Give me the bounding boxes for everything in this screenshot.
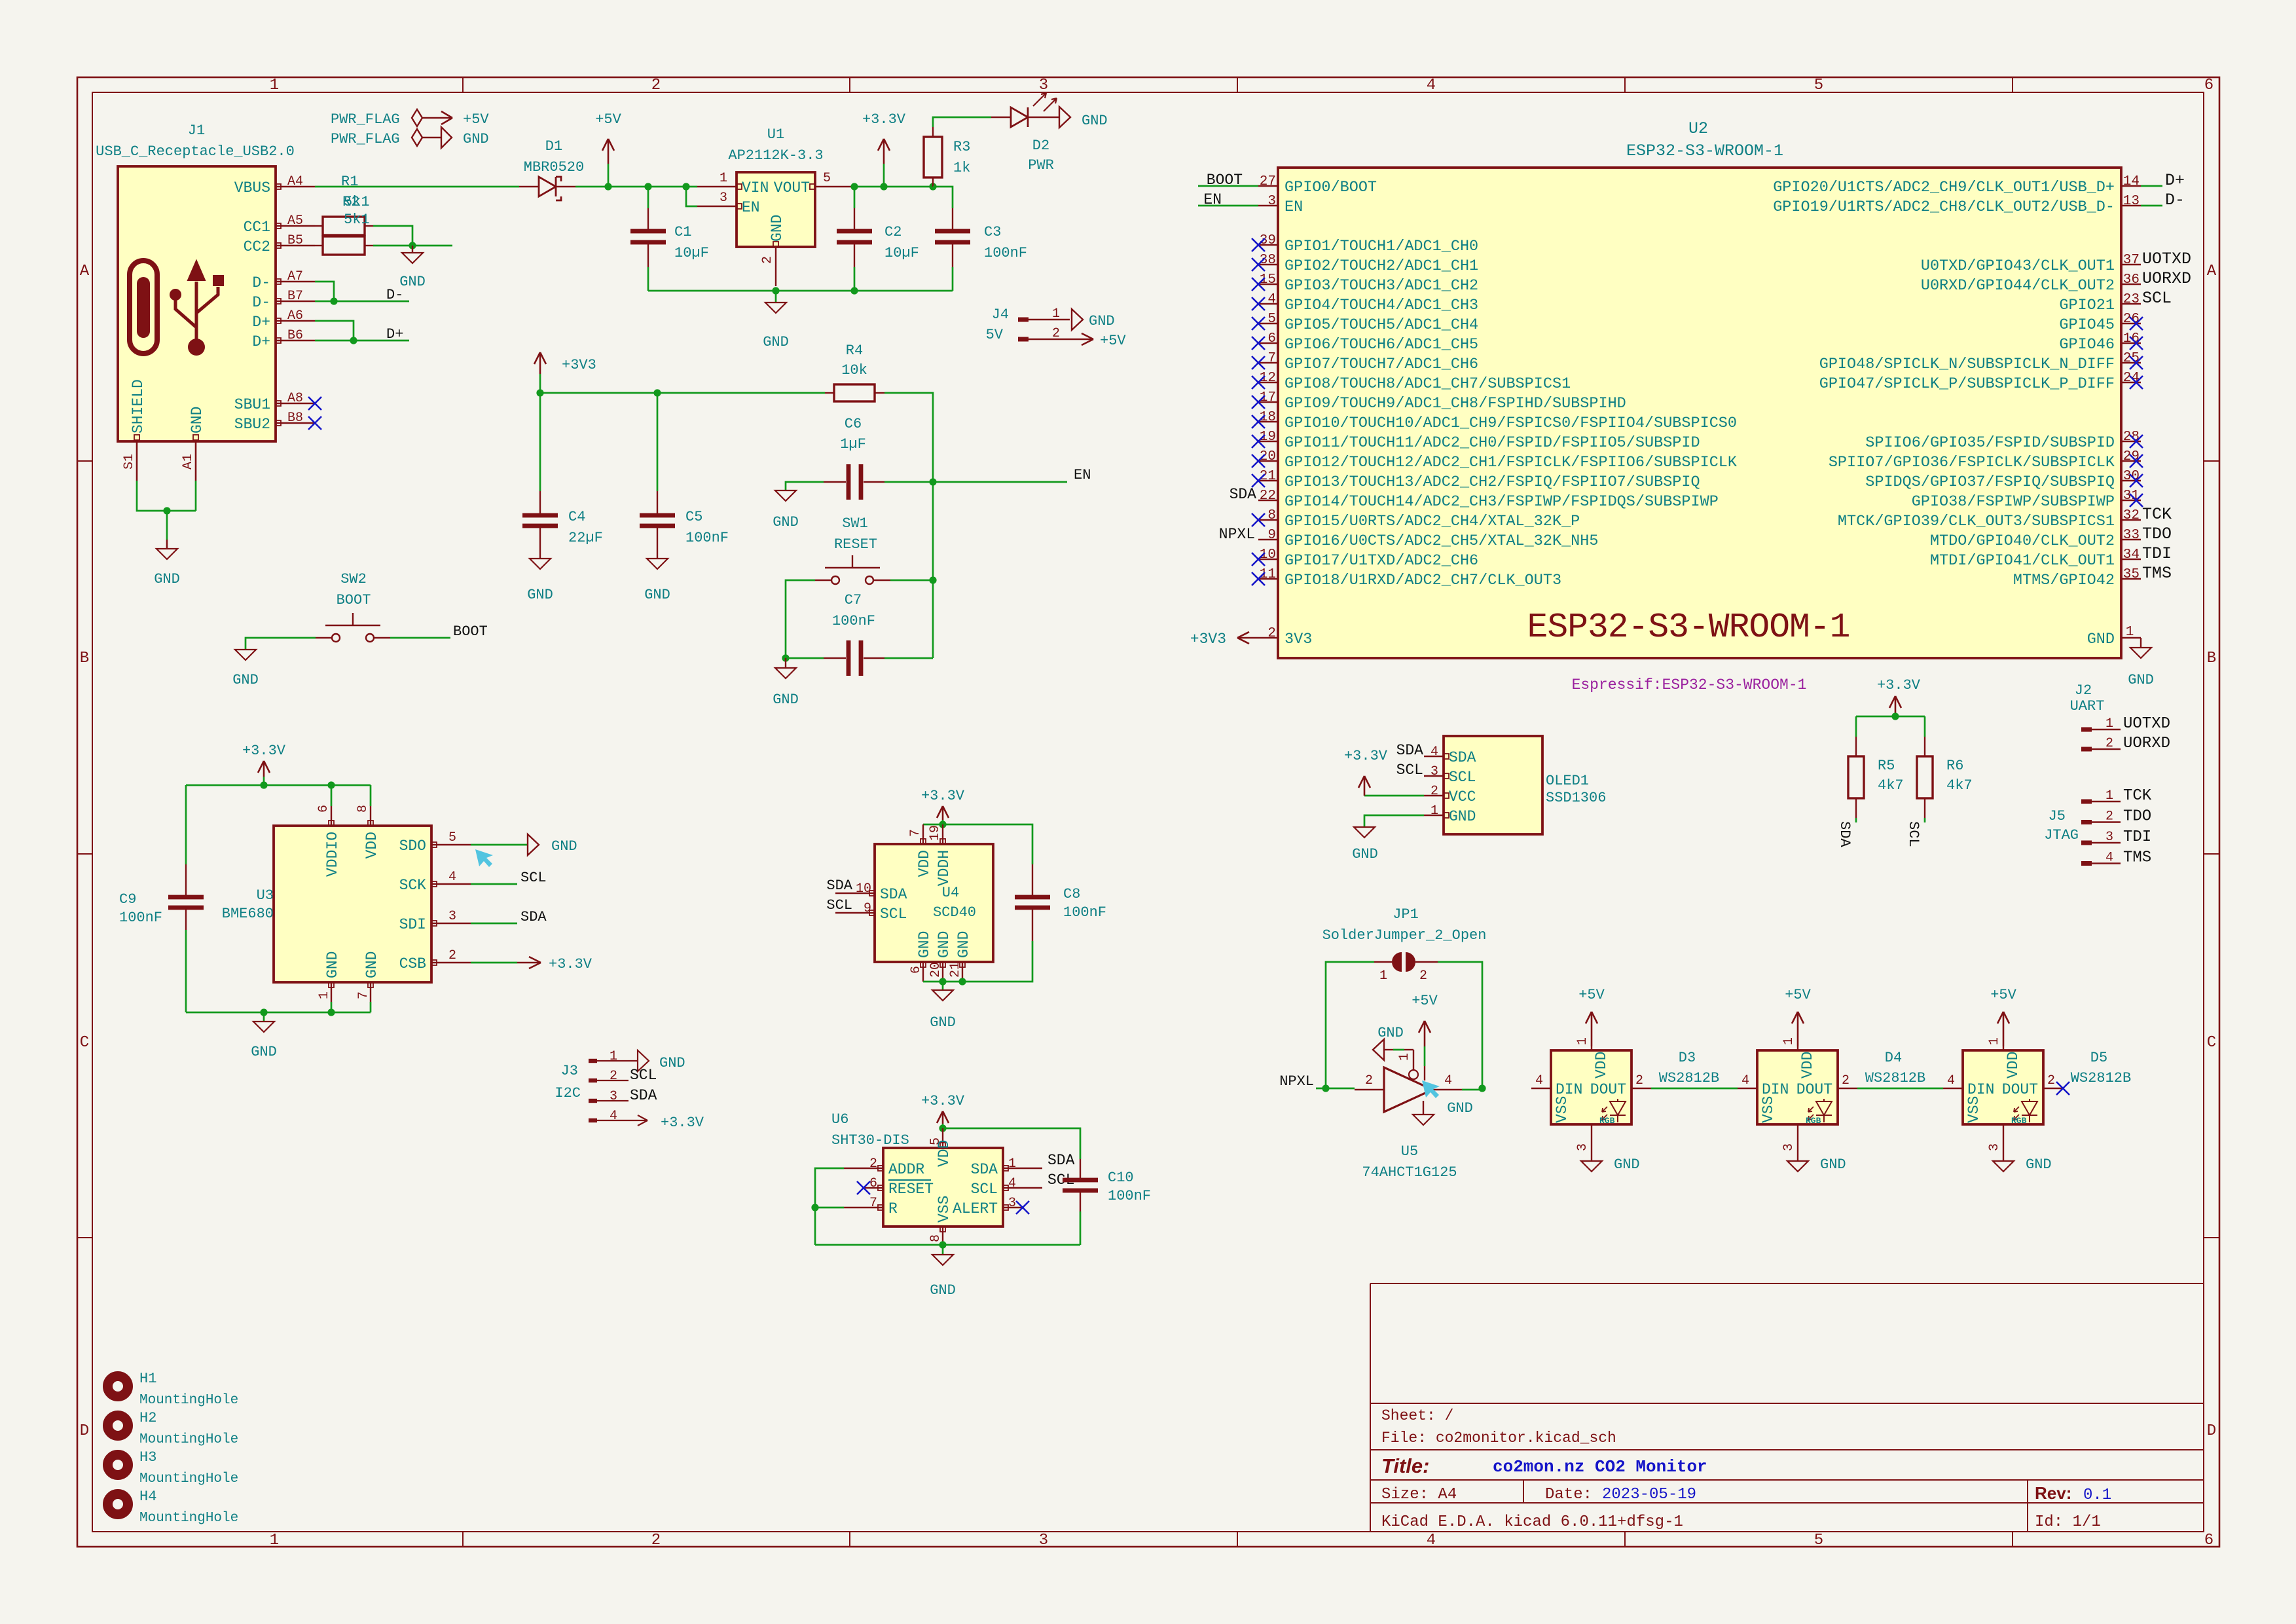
svg-text:DIN: DIN [1762, 1081, 1789, 1098]
svg-text:1: 1 [2126, 625, 2134, 640]
svg-text:GPIO0/BOOT: GPIO0/BOOT [1285, 179, 1377, 196]
svg-text:MBR0520: MBR0520 [524, 159, 584, 175]
svg-text:+5V: +5V [463, 111, 489, 128]
svg-text:GND: GND [773, 692, 799, 708]
svg-text:J2: J2 [2075, 682, 2092, 699]
svg-text:GND: GND [936, 931, 953, 958]
svg-text:GND: GND [251, 1044, 277, 1060]
svg-text:GND: GND [769, 215, 786, 242]
svg-text:GPIO5/TOUCH5/ADC1_CH4: GPIO5/TOUCH5/ADC1_CH4 [1285, 316, 1478, 334]
svg-text:A: A [80, 263, 90, 280]
svg-text:GPIO19/U1RTS/ADC2_CH8/CLK_OUT2: GPIO19/U1RTS/ADC2_CH8/CLK_OUT2/USB_D- [1773, 198, 2115, 216]
svg-text:2: 2 [1365, 1073, 1373, 1088]
svg-text:UART: UART [2070, 698, 2105, 714]
svg-text:C8: C8 [1063, 886, 1080, 902]
svg-text:GPIO38/FSPIWP/SUBSPIWP: GPIO38/FSPIWP/SUBSPIWP [1912, 493, 2115, 511]
svg-text:+3.3V: +3.3V [242, 743, 286, 759]
svg-text:GND: GND [1614, 1156, 1640, 1173]
svg-text:SHIELD: SHIELD [130, 379, 147, 434]
svg-text:MTDO/GPIO40/CLK_OUT2: MTDO/GPIO40/CLK_OUT2 [1930, 532, 2115, 550]
svg-text:GPIO21: GPIO21 [2059, 297, 2115, 314]
svg-text:MTMS/GPIO42: MTMS/GPIO42 [2013, 572, 2115, 589]
svg-text:SCL: SCL [1396, 762, 1423, 779]
svg-text:TMS: TMS [2142, 564, 2172, 583]
svg-text:14: 14 [2123, 174, 2140, 189]
svg-text:KiCad E.D.A. kicad 6.0.11+dfs: KiCad E.D.A. kicad 6.0.11+dfsg-1 [1381, 1513, 1683, 1531]
svg-text:SCL: SCL [1905, 821, 1922, 847]
svg-text:GND: GND [955, 931, 972, 958]
svg-text:VOUT: VOUT [774, 179, 810, 196]
svg-text:JTAG: JTAG [2044, 827, 2079, 843]
svg-text:SDI: SDI [399, 916, 426, 933]
svg-text:+3.3V: +3.3V [1877, 677, 1921, 693]
svg-text:R5: R5 [1878, 758, 1895, 774]
svg-text:GND: GND [324, 951, 341, 978]
svg-text:GND: GND [763, 334, 789, 350]
svg-text:CSB: CSB [399, 955, 426, 972]
svg-text:VDDH: VDDH [936, 850, 953, 886]
svg-text:1k: 1k [953, 160, 970, 176]
svg-text:6: 6 [2204, 1532, 2214, 1549]
svg-text:VSS: VSS [1760, 1096, 1777, 1123]
svg-text:SDO: SDO [399, 838, 426, 855]
svg-text:+3.3V: +3.3V [921, 788, 965, 804]
svg-text:MountingHole: MountingHole [139, 1511, 238, 1526]
svg-text:RGB: RGB [1806, 1116, 1821, 1126]
svg-text:U1: U1 [767, 126, 784, 143]
svg-text:9: 9 [864, 901, 871, 916]
svg-text:10µF: 10µF [884, 245, 919, 261]
svg-text:D5: D5 [2090, 1050, 2107, 1066]
svg-text:5k1: 5k1 [344, 212, 370, 228]
svg-text:+3.3V: +3.3V [661, 1115, 704, 1131]
svg-text:BOOT: BOOT [1207, 172, 1243, 189]
svg-text:D+: D+ [252, 314, 270, 331]
svg-text:SCL: SCL [520, 870, 547, 886]
svg-text:GND: GND [1447, 1100, 1473, 1116]
svg-text:MountingHole: MountingHole [139, 1432, 238, 1447]
svg-text:UOTXD: UOTXD [2142, 249, 2191, 268]
svg-text:4: 4 [1535, 1073, 1543, 1088]
svg-text:2023-05-19: 2023-05-19 [1602, 1486, 1696, 1504]
svg-text:SPIIO6/GPIO35/FSPID/SUBSPID: SPIIO6/GPIO35/FSPID/SUBSPID [1865, 434, 2115, 452]
svg-text:SPIDQS/GPIO37/FSPIQ/SUBSPIQ: SPIDQS/GPIO37/FSPIQ/SUBSPIQ [1865, 473, 2115, 491]
svg-text:EN: EN [1203, 191, 1222, 208]
svg-text:C3: C3 [984, 224, 1001, 240]
svg-text:2: 2 [1430, 784, 1438, 799]
svg-text:GND: GND [551, 838, 577, 855]
svg-text:1: 1 [1430, 803, 1438, 819]
svg-text:5: 5 [823, 171, 831, 186]
svg-text:5: 5 [1814, 77, 1823, 94]
svg-text:C1: C1 [674, 224, 691, 240]
svg-text:PWR_FLAG: PWR_FLAG [331, 111, 400, 128]
svg-text:GND: GND [527, 587, 553, 603]
svg-text:GPIO2/TOUCH2/ADC1_CH1: GPIO2/TOUCH2/ADC1_CH1 [1285, 257, 1478, 275]
svg-text:U2: U2 [1688, 119, 1708, 138]
svg-text:DOUT: DOUT [2002, 1081, 2038, 1098]
svg-text:1: 1 [270, 77, 279, 94]
svg-text:U5: U5 [1401, 1143, 1418, 1160]
svg-text:GPIO15/U0RTS/ADC2_CH4/XTAL_32K: GPIO15/U0RTS/ADC2_CH4/XTAL_32K_P [1285, 513, 1580, 530]
svg-text:GPIO17/U1TXD/ADC2_CH6: GPIO17/U1TXD/ADC2_CH6 [1285, 552, 1478, 570]
svg-text:22: 22 [1260, 489, 1276, 504]
svg-text:RESET: RESET [834, 536, 877, 553]
svg-text:GPIO20/U1CTS/ADC2_CH9/CLK_OUT1: GPIO20/U1CTS/ADC2_CH9/CLK_OUT1/USB_D+ [1773, 179, 2115, 196]
svg-text:Rev:: Rev: [2035, 1483, 2071, 1503]
svg-text:H3: H3 [139, 1449, 156, 1466]
svg-text:EN: EN [1285, 198, 1303, 216]
svg-text:1: 1 [720, 171, 727, 186]
svg-text:U0RXD/GPIO44/CLK_OUT2: U0RXD/GPIO44/CLK_OUT2 [1921, 277, 2115, 295]
svg-text:SCL: SCL [2142, 289, 2172, 308]
svg-text:3: 3 [1267, 194, 1276, 209]
svg-text:Size: A4: Size: A4 [1381, 1486, 1457, 1504]
svg-text:SCL: SCL [630, 1067, 657, 1084]
svg-text:SW2: SW2 [340, 571, 367, 587]
svg-text:D: D [80, 1422, 89, 1440]
svg-text:R: R [888, 1200, 898, 1217]
svg-text:GPIO16/U0CTS/ADC2_CH5/XTAL_32K: GPIO16/U0CTS/ADC2_CH5/XTAL_32K_NH5 [1285, 532, 1598, 550]
svg-text:10: 10 [856, 881, 871, 896]
svg-text:J1: J1 [188, 122, 205, 139]
svg-text:OLED1: OLED1 [1546, 773, 1589, 789]
svg-text:GND: GND [463, 131, 489, 147]
svg-text:ADDR: ADDR [888, 1161, 924, 1178]
svg-text:U4: U4 [942, 885, 959, 901]
svg-text:VIN: VIN [742, 179, 769, 196]
svg-text:1: 1 [2105, 716, 2113, 731]
svg-text:+3.3V: +3.3V [862, 111, 906, 128]
svg-text:J4: J4 [992, 306, 1009, 323]
svg-text:EN: EN [742, 199, 760, 216]
svg-text:Sheet: /: Sheet: / [1381, 1407, 1453, 1424]
svg-text:I2C: I2C [555, 1085, 581, 1101]
svg-text:34: 34 [2123, 547, 2140, 563]
svg-text:+5V: +5V [1578, 987, 1605, 1003]
svg-text:+5V: +5V [1785, 987, 1811, 1003]
svg-text:5V: 5V [986, 327, 1004, 343]
svg-text:4: 4 [1008, 1176, 1016, 1191]
svg-text:D4: D4 [1885, 1050, 1902, 1066]
svg-text:SCK: SCK [399, 877, 427, 894]
svg-text:3: 3 [720, 191, 727, 206]
svg-text:GND: GND [1082, 113, 1108, 129]
svg-text:CC1: CC1 [244, 219, 270, 236]
svg-text:5: 5 [1267, 312, 1276, 327]
svg-text:22µF: 22µF [568, 530, 603, 546]
svg-text:A: A [2207, 263, 2217, 280]
svg-text:1: 1 [1052, 306, 1060, 322]
svg-text:DOUT: DOUT [1796, 1081, 1832, 1098]
svg-text:GND: GND [644, 587, 670, 603]
svg-text:MountingHole: MountingHole [139, 1393, 238, 1408]
svg-text:4k7: 4k7 [1946, 777, 1973, 794]
svg-text:A4: A4 [287, 174, 303, 189]
svg-text:GPIO7/TOUCH7/ADC1_CH6: GPIO7/TOUCH7/ADC1_CH6 [1285, 356, 1478, 373]
svg-text:MTDI/GPIO41/CLK_OUT1: MTDI/GPIO41/CLK_OUT1 [1930, 552, 2115, 570]
svg-text:B7: B7 [287, 289, 303, 304]
svg-text:BME680: BME680 [222, 906, 274, 922]
svg-text:2: 2 [2105, 809, 2113, 824]
svg-text:GND: GND [189, 407, 206, 434]
svg-text:BOOT: BOOT [337, 592, 371, 608]
svg-text:VBUS: VBUS [234, 179, 270, 196]
svg-text:1: 1 [1397, 1053, 1412, 1061]
svg-text:VDD: VDD [363, 832, 380, 858]
svg-text:GPIO11/TOUCH11/ADC2_CH0/FSPID/: GPIO11/TOUCH11/ADC2_CH0/FSPID/FSPIIO5/SU… [1285, 434, 1700, 452]
svg-text:2: 2 [1419, 969, 1427, 984]
svg-text:100nF: 100nF [1063, 904, 1106, 921]
svg-text:6: 6 [316, 805, 331, 813]
svg-text:GND: GND [930, 1282, 956, 1299]
svg-text:ALERT: ALERT [953, 1200, 998, 1217]
svg-text:GND: GND [2026, 1156, 2052, 1173]
svg-text:RGB: RGB [2011, 1116, 2027, 1126]
svg-text:6: 6 [1267, 331, 1276, 346]
svg-text:27: 27 [1260, 174, 1276, 189]
svg-text:VDDIO: VDDIO [324, 832, 341, 877]
svg-text:USB_C_Receptacle_USB2.0: USB_C_Receptacle_USB2.0 [96, 143, 295, 160]
svg-text:C10: C10 [1108, 1170, 1134, 1186]
svg-text:File: co2monitor.kicad_sch: File: co2monitor.kicad_sch [1381, 1430, 1616, 1447]
svg-text:co2mon.nz CO2 Monitor: co2mon.nz CO2 Monitor [1493, 1457, 1707, 1477]
svg-text:PWR: PWR [1028, 157, 1054, 174]
svg-text:7: 7 [869, 1196, 877, 1211]
svg-text:GND: GND [1449, 808, 1476, 825]
svg-text:4: 4 [1430, 745, 1438, 760]
svg-text:2: 2 [1635, 1073, 1643, 1088]
svg-text:TDI: TDI [2142, 544, 2172, 563]
svg-text:SDA: SDA [630, 1087, 657, 1104]
svg-text:GPIO6/TOUCH6/ADC1_CH5: GPIO6/TOUCH6/ADC1_CH5 [1285, 336, 1478, 354]
svg-text:GND: GND [2128, 672, 2154, 688]
svg-text:+3V3: +3V3 [1190, 631, 1226, 648]
svg-text:AP2112K-3.3: AP2112K-3.3 [728, 147, 823, 164]
svg-text:5: 5 [1814, 1532, 1823, 1549]
svg-text:GND: GND [1820, 1156, 1846, 1173]
svg-text:SBU2: SBU2 [234, 416, 270, 433]
svg-text:VSS: VSS [936, 1196, 953, 1223]
svg-text:MountingHole: MountingHole [139, 1471, 238, 1486]
svg-text:+3.3V: +3.3V [1344, 748, 1388, 764]
svg-text:C: C [2207, 1034, 2216, 1052]
svg-text:UORXD: UORXD [2123, 735, 2170, 752]
svg-text:SBU1: SBU1 [234, 396, 270, 413]
svg-text:2: 2 [651, 77, 661, 94]
svg-text:C: C [80, 1034, 89, 1052]
svg-text:5: 5 [448, 830, 456, 845]
svg-text:6: 6 [2204, 77, 2214, 94]
svg-text:D1: D1 [545, 138, 562, 155]
svg-text:Espressif:ESP32-S3-WROOM-1: Espressif:ESP32-S3-WROOM-1 [1572, 676, 1807, 693]
svg-text:SCL: SCL [880, 906, 907, 923]
svg-text:U3: U3 [257, 887, 274, 904]
svg-text:C9: C9 [119, 891, 136, 908]
svg-text:C5: C5 [685, 509, 702, 525]
svg-text:3: 3 [448, 909, 456, 924]
svg-text:3V3: 3V3 [1285, 631, 1312, 648]
svg-text:GND: GND [363, 951, 380, 978]
svg-text:A1: A1 [181, 454, 196, 470]
svg-text:4: 4 [1427, 77, 1436, 94]
svg-text:EN: EN [1074, 467, 1091, 483]
svg-text:U0TXD/GPIO43/CLK_OUT1: U0TXD/GPIO43/CLK_OUT1 [1921, 257, 2115, 275]
svg-text:+5V: +5V [1100, 333, 1126, 349]
svg-text:37: 37 [2123, 253, 2140, 268]
svg-text:VSS: VSS [1554, 1096, 1571, 1123]
svg-text:B5: B5 [287, 233, 303, 248]
svg-text:1: 1 [610, 1049, 617, 1064]
svg-text:32: 32 [2123, 508, 2140, 523]
svg-text:2: 2 [1842, 1073, 1850, 1088]
svg-text:TDI: TDI [2123, 828, 2151, 846]
svg-text:D-: D- [252, 294, 270, 311]
svg-text:4: 4 [610, 1109, 617, 1124]
svg-text:4: 4 [2105, 851, 2113, 866]
svg-text:33: 33 [2123, 528, 2140, 543]
svg-text:3: 3 [610, 1089, 617, 1104]
svg-text:ESP32-S3-WROOM-1: ESP32-S3-WROOM-1 [1527, 608, 1850, 647]
svg-text:1µF: 1µF [840, 436, 866, 452]
svg-text:TCK: TCK [2142, 505, 2172, 524]
svg-text:WS2812B: WS2812B [2071, 1070, 2131, 1086]
svg-text:VDD: VDD [1799, 1052, 1816, 1079]
svg-text:R4: R4 [846, 342, 863, 359]
svg-text:2: 2 [869, 1156, 877, 1172]
svg-text:3: 3 [1575, 1143, 1590, 1151]
svg-text:BOOT: BOOT [453, 623, 488, 640]
svg-text:SW1: SW1 [842, 515, 868, 532]
svg-text:C6: C6 [845, 416, 862, 432]
svg-text:1: 1 [1379, 969, 1387, 984]
svg-text:4: 4 [1741, 1073, 1749, 1088]
svg-text:GND: GND [1089, 313, 1115, 329]
svg-text:DOUT: DOUT [1590, 1081, 1626, 1098]
svg-text:9: 9 [1267, 528, 1276, 543]
svg-text:Title:: Title: [1381, 1454, 1430, 1477]
svg-text:Id: 1/1: Id: 1/1 [2035, 1513, 2101, 1531]
svg-text:S1: S1 [122, 454, 137, 470]
svg-text:VDD: VDD [2005, 1052, 2022, 1079]
svg-text:100nF: 100nF [685, 530, 729, 546]
svg-text:+5V: +5V [1412, 993, 1438, 1009]
svg-text:UORXD: UORXD [2142, 269, 2191, 288]
svg-text:SCL: SCL [971, 1181, 998, 1198]
svg-text:NPXL: NPXL [1279, 1073, 1314, 1090]
svg-text:SPIIO7/GPIO36/FSPICLK/SUBSPICL: SPIIO7/GPIO36/FSPICLK/SUBSPICLK [1829, 454, 2115, 471]
svg-text:D3: D3 [1679, 1050, 1696, 1066]
svg-text:1: 1 [1575, 1037, 1590, 1045]
svg-text:SDA: SDA [520, 909, 547, 925]
svg-text:A5: A5 [287, 213, 303, 229]
svg-text:D2: D2 [1032, 138, 1049, 154]
svg-text:WS2812B: WS2812B [1865, 1070, 1925, 1086]
svg-text:VSS: VSS [1965, 1096, 1982, 1123]
svg-text:GND: GND [773, 514, 799, 530]
svg-text:1: 1 [317, 991, 332, 999]
svg-text:SDA: SDA [1230, 486, 1257, 503]
svg-text:RESET: RESET [888, 1181, 934, 1198]
svg-text:3: 3 [1039, 1532, 1048, 1549]
svg-text:2: 2 [760, 256, 775, 264]
svg-text:SolderJumper_2_Open: SolderJumper_2_Open [1322, 927, 1487, 944]
svg-text:74AHCT1G125: 74AHCT1G125 [1362, 1164, 1457, 1181]
svg-text:0.1: 0.1 [2083, 1486, 2111, 1504]
svg-text:A6: A6 [287, 308, 303, 323]
svg-text:36: 36 [2123, 272, 2140, 287]
svg-text:GPIO1/TOUCH1/ADC1_CH0: GPIO1/TOUCH1/ADC1_CH0 [1285, 238, 1478, 255]
svg-text:35: 35 [2123, 567, 2140, 582]
svg-text:GND: GND [659, 1055, 685, 1071]
svg-text:21: 21 [948, 962, 963, 978]
svg-text:4: 4 [1267, 292, 1276, 307]
svg-text:2: 2 [448, 948, 456, 963]
svg-text:+3.3V: +3.3V [549, 956, 592, 972]
svg-text:GND: GND [1377, 1025, 1404, 1041]
svg-text:GND: GND [232, 672, 259, 688]
svg-text:H2: H2 [139, 1410, 156, 1426]
svg-text:A8: A8 [287, 391, 303, 406]
svg-text:GPIO4/TOUCH4/ADC1_CH3: GPIO4/TOUCH4/ADC1_CH3 [1285, 297, 1478, 314]
svg-text:TMS: TMS [2123, 849, 2151, 867]
svg-text:PWR_FLAG: PWR_FLAG [331, 131, 400, 147]
svg-text:3: 3 [1039, 77, 1048, 94]
svg-text:10µF: 10µF [674, 245, 709, 261]
svg-text:SSD1306: SSD1306 [1546, 790, 1606, 806]
svg-text:GND: GND [916, 931, 933, 958]
svg-text:1: 1 [270, 1532, 279, 1549]
svg-text:GPIO3/TOUCH3/ADC1_CH2: GPIO3/TOUCH3/ADC1_CH2 [1285, 277, 1478, 295]
svg-text:6: 6 [869, 1176, 877, 1191]
svg-text:4: 4 [1427, 1532, 1436, 1549]
svg-text:100nF: 100nF [832, 613, 875, 629]
svg-text:2: 2 [2105, 736, 2113, 751]
svg-text:GND: GND [2087, 631, 2115, 648]
svg-text:D-: D- [386, 287, 403, 303]
svg-text:A7: A7 [287, 269, 303, 284]
svg-text:2: 2 [651, 1532, 661, 1549]
svg-text:+5V: +5V [1990, 987, 2016, 1003]
svg-text:SCD40: SCD40 [933, 904, 976, 921]
svg-text:7: 7 [356, 991, 371, 999]
svg-text:2: 2 [2047, 1073, 2055, 1088]
svg-text:SDA: SDA [971, 1161, 998, 1178]
svg-text:D+: D+ [2165, 171, 2185, 190]
svg-text:VDD: VDD [916, 850, 933, 877]
svg-text:7: 7 [908, 829, 923, 837]
svg-text:3: 3 [1781, 1143, 1796, 1151]
svg-text:7: 7 [1267, 351, 1276, 366]
svg-text:GPIO8/TOUCH8/ADC1_CH7/SUBSPICS: GPIO8/TOUCH8/ADC1_CH7/SUBSPICS1 [1285, 375, 1571, 393]
svg-text:H1: H1 [139, 1371, 156, 1387]
svg-text:TDO: TDO [2142, 525, 2172, 544]
svg-text:13: 13 [2123, 194, 2140, 209]
svg-text:JP1: JP1 [1393, 906, 1419, 923]
svg-text:DIN: DIN [1967, 1081, 1994, 1098]
svg-text:1: 1 [2105, 788, 2113, 803]
svg-text:1: 1 [1781, 1037, 1796, 1045]
svg-text:GPIO12/TOUCH12/ADC2_CH1/FSPICL: GPIO12/TOUCH12/ADC2_CH1/FSPICLK/FSPIIO6/… [1285, 454, 1738, 471]
svg-text:SDA: SDA [1449, 749, 1476, 766]
svg-text:TDO: TDO [2123, 808, 2151, 826]
svg-text:SCL: SCL [826, 897, 852, 913]
svg-text:GPIO10/TOUCH10/ADC1_CH9/FSPICS: GPIO10/TOUCH10/ADC1_CH9/FSPICS0/FSPIIO4/… [1285, 415, 1737, 432]
svg-text:DIN: DIN [1556, 1081, 1582, 1098]
svg-text:10k: 10k [841, 362, 867, 378]
svg-text:C4: C4 [568, 509, 585, 525]
svg-text:3: 3 [2105, 830, 2113, 845]
